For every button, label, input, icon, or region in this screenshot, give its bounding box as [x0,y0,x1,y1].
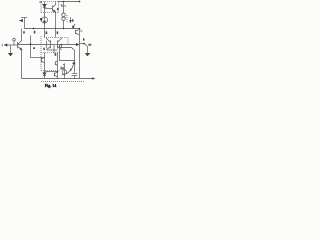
svg-text:34: 34 [39,0,43,4]
svg-text:Fig. 14: Fig. 14 [45,83,57,88]
